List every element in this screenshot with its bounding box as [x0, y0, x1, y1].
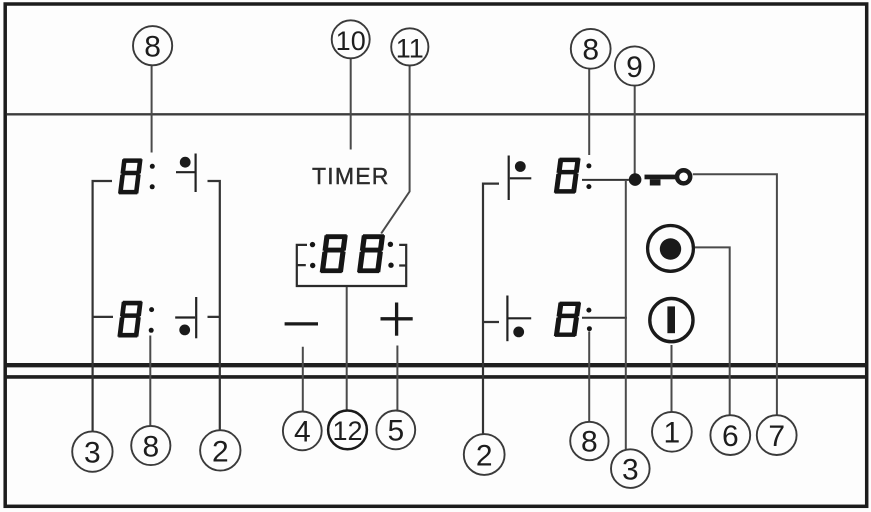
right display digit row2: [554, 302, 582, 337]
left display digit row1: [118, 158, 143, 194]
left bracket (leader to callout 3 left): [93, 181, 113, 431]
leader wire callout 7: [693, 174, 777, 415]
svg-text:8: 8: [144, 31, 161, 64]
leader wire callout 3 right (vertical): [625, 180, 627, 449]
svg-text:TIMER: TIMER: [312, 163, 390, 189]
callout 6: [710, 415, 750, 455]
leader wire callout 9: [634, 86, 636, 174]
svg-text:10: 10: [336, 26, 366, 56]
svg-text:3: 3: [84, 437, 101, 470]
callout 8 bottom-left: [131, 426, 170, 465]
left bracket (leader to callout 2 right): [483, 184, 499, 434]
right indicator dot row2: [513, 327, 524, 338]
svg-text:5: 5: [387, 415, 404, 448]
leader wire callout 8 top-left: [151, 66, 153, 153]
leader wire callout 10: [350, 58, 352, 149]
leader wire callout 11: [381, 66, 409, 234]
callout 3 left: [72, 431, 112, 471]
right indicator flag row2: [507, 296, 531, 342]
leader wire callout 1: [671, 345, 673, 412]
double separator line lower: [5, 375, 867, 379]
svg-text:2: 2: [476, 439, 493, 472]
leader wire callout 8 top-right: [588, 69, 590, 156]
svg-text:3: 3: [622, 453, 639, 486]
right display digit row1: [554, 158, 581, 194]
TIMER label: [312, 163, 390, 189]
left display colon row1: [150, 164, 155, 190]
right indicator dot row1: [515, 161, 526, 172]
left display colon row2: [149, 307, 154, 333]
power on/off icon (circle with bar): [650, 299, 693, 342]
leader wire callout 6: [695, 247, 730, 415]
right bracket (leader to callout 2 left): [208, 181, 220, 430]
leader wire callout 5: [396, 346, 398, 411]
timer digit 2: [357, 234, 385, 273]
svg-text:9: 9: [626, 51, 643, 84]
timer display box: [297, 245, 406, 286]
timer colon left: [310, 242, 316, 268]
callout 2 left: [200, 430, 240, 470]
callout 8 top-left: [133, 26, 172, 65]
link wire display row2 to vertical: [582, 317, 627, 319]
link wire display row1 to junction: [582, 179, 629, 181]
callout 7: [757, 415, 797, 455]
svg-text:6: 6: [722, 420, 739, 453]
plus key: [381, 303, 413, 336]
top divider line: [7, 113, 865, 115]
callout 12: [328, 411, 367, 450]
leader wire callout 8 bottom-left: [149, 336, 151, 426]
right display colon row2: [586, 308, 592, 332]
left display digit row2: [117, 301, 143, 338]
callout 2 right: [464, 434, 505, 475]
heat indicator icon (circle with filled dot): [648, 226, 694, 272]
callout 4: [283, 412, 322, 451]
key-lock icon: [645, 170, 691, 185]
leader wire callout 8 bottom-right: [588, 332, 590, 422]
svg-text:2: 2: [212, 435, 229, 468]
right indicator flag row1 (bar, dot over line): [509, 156, 532, 201]
left indicator dot row2: [179, 325, 190, 336]
svg-text:1: 1: [664, 417, 681, 450]
key-lock junction dot: [629, 173, 642, 186]
leader wire callout 12: [346, 287, 348, 410]
svg-text:8: 8: [581, 426, 598, 459]
timer colon right: [388, 242, 394, 268]
svg-text:7: 7: [768, 420, 785, 453]
left indicator flag row2 (line with dot below and bar): [175, 297, 196, 338]
callout 3 right: [611, 449, 650, 488]
svg-text:4: 4: [294, 416, 311, 449]
callout 9: [615, 46, 654, 85]
callout 5: [376, 411, 415, 450]
callout 10: [332, 20, 370, 58]
timer digit 1: [320, 234, 348, 273]
callout 8 bottom-right: [570, 422, 608, 460]
right display colon row1: [586, 163, 591, 189]
minus key: [285, 322, 318, 325]
svg-text:12: 12: [332, 416, 362, 446]
svg-text:8: 8: [582, 34, 599, 67]
callout 11: [391, 28, 428, 65]
left indicator flag row1 (dot over line with bar): [176, 154, 196, 193]
svg-text:8: 8: [142, 430, 159, 463]
leader wire callout 4: [302, 347, 304, 412]
callout 8 top-right: [571, 29, 611, 69]
left indicator dot row1: [180, 157, 191, 168]
callout 1: [652, 412, 692, 452]
svg-text:11: 11: [396, 33, 424, 63]
double separator line upper: [5, 363, 867, 367]
